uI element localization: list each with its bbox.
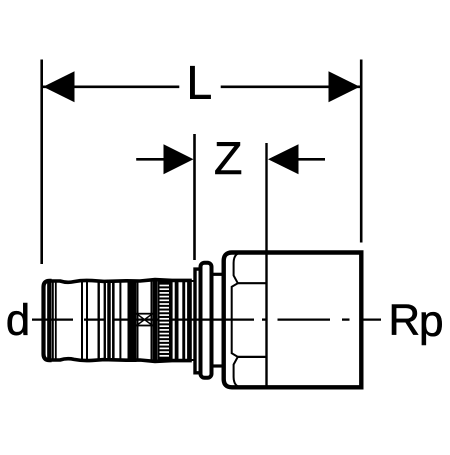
dimension Z extension line right (continues into socket) bbox=[265, 143, 267, 388]
split-ring band lines bbox=[137, 280, 139, 362]
dimension Z extension line left bbox=[193, 134, 196, 260]
press sleeve left cap bbox=[44, 281, 50, 360]
sleeve inner line 6 bbox=[119, 281, 121, 361]
dimension L extension line right bbox=[360, 60, 363, 243]
dimension Z line right bbox=[292, 158, 325, 161]
neck bottom line bbox=[212, 364, 224, 367]
dimension Z arrowhead right bbox=[268, 144, 299, 174]
label L bbox=[190, 66, 210, 99]
sleeve inner line 4 bbox=[86, 281, 88, 360]
dimension L arrowhead right bbox=[329, 71, 360, 102]
grip ring 2 bbox=[182, 280, 185, 362]
collar main fill bbox=[201, 263, 212, 378]
neck top line bbox=[212, 273, 224, 276]
hex flat line bottom bbox=[238, 356, 267, 358]
centerline bbox=[32, 318, 381, 320]
hex face contour line bbox=[232, 253, 240, 387]
dimension L line left segment bbox=[43, 86, 179, 89]
dimension Z line left bbox=[136, 158, 170, 161]
knurled ring bbox=[157, 281, 172, 360]
sleeve inner line 2 bbox=[55, 281, 57, 361]
bowtie channel bottom line bbox=[137, 325, 153, 327]
label Rp bbox=[392, 305, 418, 335]
label Z bbox=[215, 142, 241, 174]
sleeve dark band 2 bbox=[128, 280, 137, 363]
collar front ring fill bbox=[195, 269, 201, 373]
dimension L arrowhead left bbox=[43, 71, 74, 102]
dark band right of bowtie bbox=[153, 280, 158, 363]
sleeve dark band 1 (o-ring pack) bbox=[104, 280, 115, 362]
dimension L line right segment bbox=[221, 86, 360, 89]
sleeve cap edge line bbox=[49, 281, 51, 361]
hex flat line top bbox=[238, 282, 267, 284]
socket body fill bbox=[224, 253, 362, 388]
bowtie channel top line bbox=[137, 313, 153, 315]
sleeve inner line 3 bbox=[81, 281, 83, 360]
grip ring 1 bbox=[175, 280, 179, 362]
label d bbox=[8, 303, 28, 335]
press sleeve outline bbox=[49, 280, 190, 362]
washer bbox=[190, 281, 195, 360]
dimension Z arrowhead left bbox=[164, 144, 194, 174]
dimension L extension line left bbox=[40, 60, 43, 265]
sleeve inner line 1 bbox=[52, 281, 54, 361]
grip ring 3 bbox=[187, 280, 190, 362]
sleeve inner line 5 bbox=[97, 281, 99, 360]
bowtie cross bbox=[137, 314, 153, 326]
